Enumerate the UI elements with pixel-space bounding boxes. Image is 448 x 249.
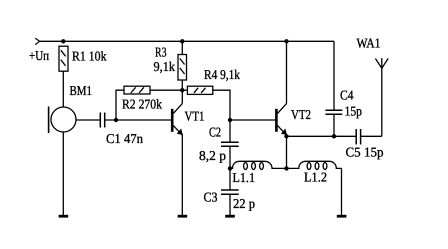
capacitor C5 <box>356 129 382 145</box>
svg-text:C4: C4 <box>340 88 354 103</box>
capacitor C1 <box>100 113 104 128</box>
node C1-R2 junction <box>114 118 118 122</box>
svg-text:9,1k: 9,1k <box>154 59 176 74</box>
svg-text:R3: R3 <box>155 44 167 59</box>
svg-text:15p: 15p <box>345 104 363 119</box>
capacitor C3 <box>221 168 239 215</box>
capacitor C4 <box>325 41 342 136</box>
node C4 bottom junction <box>332 134 336 138</box>
svg-text:VT2: VT2 <box>291 107 311 122</box>
svg-text:22 p: 22 p <box>233 196 255 211</box>
svg-text:+Uп: +Uп <box>29 48 49 63</box>
svg-text:L1.1: L1.1 <box>233 170 256 185</box>
resistor R3 <box>178 41 187 90</box>
node L1.1-VT2 emitter junction <box>284 166 288 170</box>
wire L1.2 right to ground <box>341 168 343 215</box>
resistor R2 <box>124 86 150 94</box>
node VT1 collector junction <box>180 88 184 92</box>
microphone BM1 <box>49 107 76 134</box>
svg-text:L1.2: L1.2 <box>304 170 327 185</box>
inductor L1.1 <box>230 161 287 169</box>
svg-text:C2: C2 <box>209 125 221 140</box>
input arrow +Un terminal <box>35 38 39 44</box>
wire R2 left vertical <box>116 90 124 120</box>
node rail-R3 <box>180 39 184 43</box>
node C2-VT2 base junction <box>228 118 232 122</box>
ground BM1 <box>59 215 69 218</box>
ground VT1 emitter <box>178 215 188 218</box>
node rail-VT2 collector <box>284 39 288 43</box>
wire R2 right to node <box>150 89 182 91</box>
svg-text:BM1: BM1 <box>70 83 93 98</box>
wire VT2 emitter down to L tap <box>286 135 288 168</box>
wire antenna feed <box>381 68 383 136</box>
svg-text:C3: C3 <box>204 190 218 205</box>
resistor R1 <box>59 46 68 71</box>
node rail-R1 <box>61 39 65 43</box>
transistor VT2 <box>276 41 287 135</box>
svg-text:C5 15p: C5 15p <box>346 145 384 160</box>
wire C1 to VT1 base <box>105 119 172 121</box>
svg-text:8,2 p: 8,2 p <box>199 148 226 163</box>
svg-text:R2 270k: R2 270k <box>122 96 162 111</box>
ground C3 <box>225 215 235 218</box>
wire top supply rail <box>40 40 334 42</box>
wire node to R4 <box>182 89 187 91</box>
wire VT1 emitter to ground <box>181 135 183 216</box>
wire emitter row to C5 <box>287 135 356 137</box>
capacitor C2 <box>221 120 239 168</box>
node VT2 emitter - C5 wire <box>284 134 288 138</box>
transistor VT1 <box>172 90 183 135</box>
wire R1 bottom to BM1 top <box>62 71 64 107</box>
svg-text:WA1: WA1 <box>357 36 381 51</box>
wire BM1 bottom to ground <box>62 132 64 216</box>
svg-text:R1 10k: R1 10k <box>72 48 107 63</box>
wire VT2 base <box>230 119 275 121</box>
antenna WA1 <box>375 58 388 68</box>
svg-text:VT1: VT1 <box>185 108 205 123</box>
wire R4 right to C2 node <box>213 90 230 120</box>
wire BM1 right lead <box>76 119 100 121</box>
ground L1.2 <box>337 215 347 218</box>
inductor L1.2 <box>287 161 342 169</box>
node C2-L1.1 junction <box>228 166 232 170</box>
resistor R4 <box>187 86 212 94</box>
svg-text:C1 47n: C1 47n <box>106 131 143 146</box>
svg-text:R4 9,1k: R4 9,1k <box>204 67 240 82</box>
